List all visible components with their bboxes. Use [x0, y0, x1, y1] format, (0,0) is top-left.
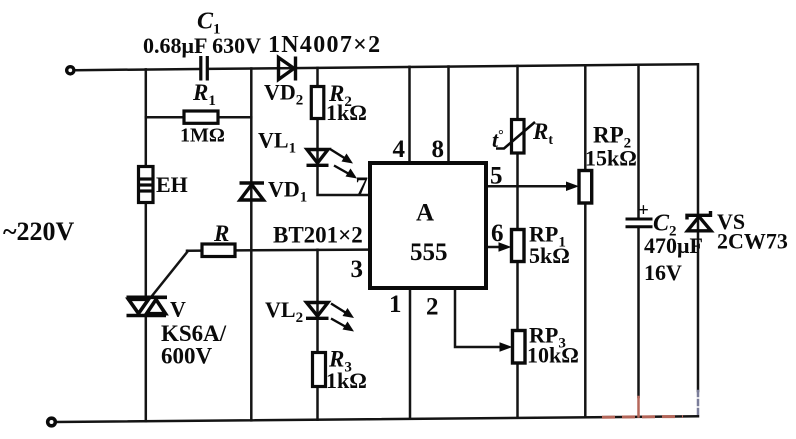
- svg-text:EH: EH: [156, 172, 188, 197]
- svg-text:555: 555: [410, 239, 448, 266]
- svg-text:5kΩ: 5kΩ: [529, 243, 570, 268]
- svg-text:2CW73: 2CW73: [717, 229, 788, 254]
- wire pin5 to RP2 wiper: [488, 185, 570, 188]
- terminal top-left: [67, 67, 74, 74]
- wire RP2 branch x=585: [584, 65, 587, 417]
- svg-text:2: 2: [426, 294, 439, 321]
- wire triac gate diagonal: [152, 251, 189, 297]
- LED VL2: [306, 303, 329, 319]
- potentiometer RP2: [579, 171, 592, 204]
- svg-text:4: 4: [393, 136, 406, 163]
- svg-text:KS6A/: KS6A/: [161, 321, 227, 346]
- capacitor C1: [201, 56, 208, 81]
- wire bottom bus: [55, 416, 698, 422]
- svg-text:1N4007×2: 1N4007×2: [268, 32, 381, 58]
- potentiometer RP3: [513, 331, 526, 364]
- potentiometer RP1: [512, 230, 525, 262]
- svg-text:BT201×2: BT201×2: [273, 223, 363, 248]
- wire vertical EH/triac branch x=146: [145, 69, 148, 421]
- svg-text:0.68μF 630V: 0.68μF 630V: [143, 33, 261, 58]
- wire right edge vertical: [697, 64, 700, 391]
- svg-text:~220V: ~220V: [3, 217, 75, 246]
- zener diode VS: [687, 211, 711, 231]
- wire bottom red dashed overlay: [602, 415, 683, 419]
- resistor R3: [313, 353, 326, 387]
- wire top bus left of C1: [75, 69, 199, 70]
- LED VL1 emission arrows: [330, 149, 357, 179]
- svg-text:1: 1: [389, 291, 402, 318]
- svg-text:+: +: [638, 200, 649, 221]
- svg-text:16V: 16V: [644, 260, 682, 285]
- svg-text:470μF: 470μF: [644, 233, 703, 258]
- wire vertical VD1 branch x=251: [250, 69, 253, 421]
- svg-text:R: R: [213, 221, 229, 246]
- wire pin4 drop: [408, 67, 411, 161]
- wire top bus C1 to corner: [209, 64, 698, 69]
- svg-text:V: V: [170, 297, 186, 322]
- resistor R1: [184, 111, 218, 123]
- arrowhead pin5 wiper: [566, 182, 579, 192]
- capacitor C2: [626, 219, 653, 227]
- wire Rt/RP1/RP3 branch x=517.5: [516, 66, 519, 418]
- svg-text:6: 6: [491, 220, 504, 247]
- wire pin1 to bottom: [409, 290, 412, 419]
- resistor R2: [311, 87, 324, 119]
- wire pin3 row: [187, 250, 368, 251]
- wire C2 branch x=638.5: [637, 65, 640, 397]
- terminal bottom-left: [48, 418, 56, 426]
- diode VD2: [279, 57, 296, 81]
- arrowhead pin2 wiper: [500, 342, 513, 352]
- wire C2 branch red lower segment: [637, 397, 640, 417]
- svg-text:A: A: [416, 200, 434, 227]
- LED VL2 emission arrows: [331, 304, 354, 332]
- op-amp U1 555 IC box: [370, 163, 486, 288]
- wire pin8 drop: [447, 67, 450, 162]
- wire R1 row: [146, 116, 252, 119]
- svg-text:3: 3: [351, 256, 364, 283]
- svg-text:8: 8: [432, 136, 445, 163]
- wire VL2/R3 branch x=317.5: [316, 250, 319, 420]
- wire pin2 to RP3: [455, 290, 504, 347]
- svg-text:1MΩ: 1MΩ: [180, 125, 225, 147]
- svg-text:600V: 600V: [161, 344, 213, 369]
- triac V: [127, 297, 168, 315]
- arrowhead pin6 wiper: [499, 242, 512, 252]
- heater EH: [139, 167, 154, 203]
- svg-text:7: 7: [356, 173, 369, 200]
- wire pin6 to RP1 wiper: [488, 246, 503, 249]
- thermistor Rt: [496, 120, 535, 154]
- svg-text:1kΩ: 1kΩ: [326, 100, 367, 125]
- wire R2/VL1 branch to pin 7: [318, 68, 369, 195]
- diode VD1: [240, 183, 265, 200]
- LED VL1: [307, 150, 329, 166]
- svg-text:10kΩ: 10kΩ: [527, 343, 579, 368]
- svg-text:1kΩ: 1kΩ: [326, 368, 367, 393]
- svg-text:15kΩ: 15kΩ: [585, 146, 637, 171]
- resistor R: [202, 244, 235, 257]
- svg-text:5: 5: [490, 163, 503, 190]
- wire right edge dashed lower segment: [697, 391, 700, 416]
